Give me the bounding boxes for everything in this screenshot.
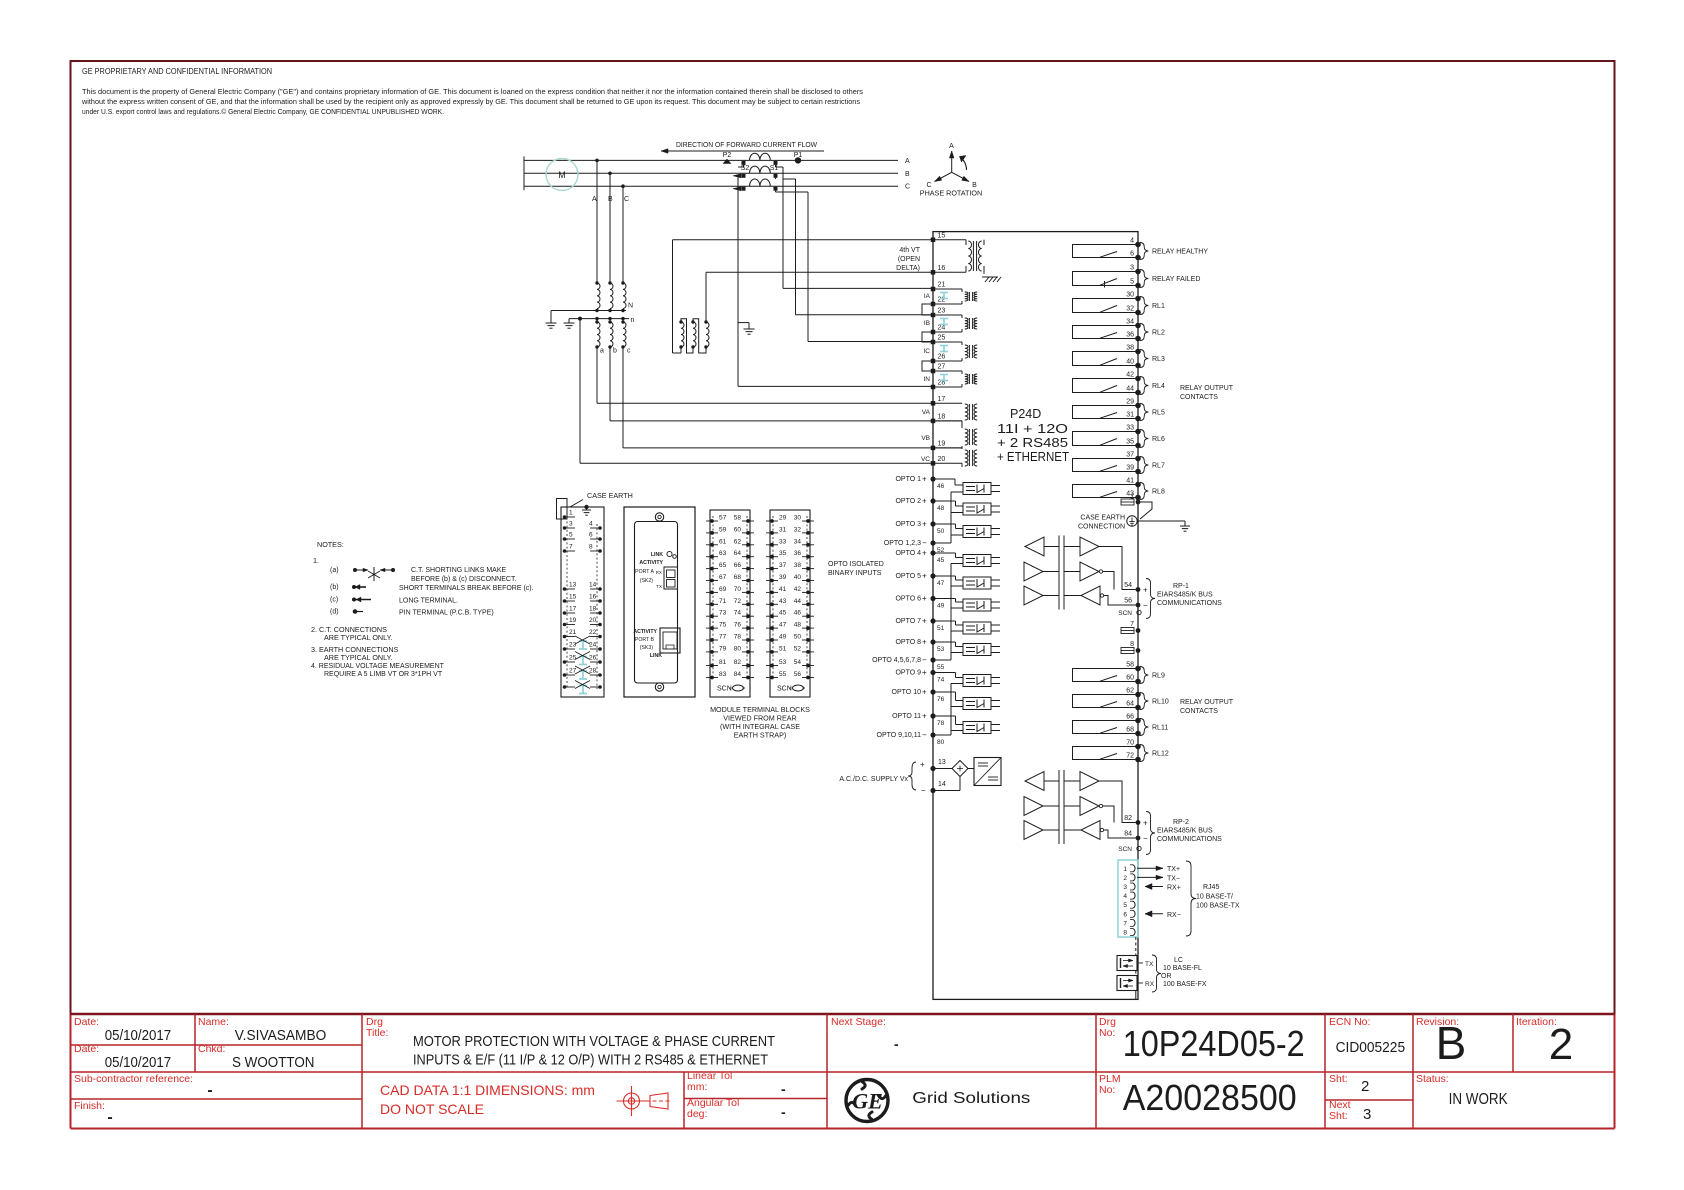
svg-text:Grid Solutions: Grid Solutions	[912, 1090, 1030, 1107]
svg-text:22: 22	[589, 629, 597, 636]
svg-text:n: n	[631, 317, 635, 324]
svg-text:3: 3	[1363, 1106, 1371, 1123]
svg-text:8: 8	[589, 544, 593, 551]
svg-text:15: 15	[569, 594, 577, 601]
svg-text:OPTO 2: OPTO 2	[895, 498, 921, 505]
svg-text:B: B	[905, 171, 910, 178]
svg-text:Sht:: Sht:	[1329, 1110, 1348, 1122]
svg-text:PORT A: PORT A	[635, 569, 654, 575]
svg-text:Date:: Date:	[74, 1016, 99, 1028]
svg-text:18: 18	[589, 606, 597, 613]
svg-text:+: +	[922, 520, 927, 529]
svg-text:BINARY INPUTS: BINARY INPUTS	[828, 570, 882, 577]
svg-text:75: 75	[719, 622, 727, 629]
svg-text:39: 39	[779, 574, 787, 581]
svg-text:NOTES:: NOTES:	[317, 540, 344, 549]
svg-text:78: 78	[937, 720, 945, 727]
svg-text:18: 18	[938, 413, 946, 420]
svg-text:32: 32	[1126, 306, 1134, 313]
svg-text:60: 60	[734, 526, 742, 533]
svg-text:6: 6	[1123, 911, 1127, 918]
svg-text:62: 62	[734, 538, 742, 545]
svg-text:COMMUNICATIONS: COMMUNICATIONS	[1157, 836, 1222, 843]
svg-text:RP-2: RP-2	[1173, 819, 1189, 826]
svg-text:84: 84	[734, 671, 742, 678]
svg-text:10P24D05-2: 10P24D05-2	[1123, 1023, 1305, 1064]
svg-text:+: +	[922, 712, 927, 721]
svg-text:Date:: Date:	[74, 1043, 99, 1055]
svg-text:40: 40	[1126, 359, 1134, 366]
svg-text:1.: 1.	[313, 556, 319, 565]
svg-text:82: 82	[734, 659, 742, 666]
svg-text:N: N	[628, 303, 633, 310]
svg-text:51: 51	[937, 625, 945, 632]
svg-text:50: 50	[937, 528, 945, 535]
svg-text:MOTOR PROTECTION WITH VOLTAGE: MOTOR PROTECTION WITH VOLTAGE & PHASE CU…	[413, 1034, 775, 1050]
svg-text:VB: VB	[921, 435, 930, 442]
svg-text:55: 55	[779, 671, 787, 678]
svg-text:48: 48	[794, 622, 802, 629]
svg-text:-: -	[207, 1082, 212, 1099]
svg-text:+ 2 RS485: + 2 RS485	[997, 436, 1068, 450]
svg-text:49: 49	[937, 603, 945, 610]
svg-text:20: 20	[589, 617, 597, 624]
svg-text:RL7: RL7	[1152, 463, 1165, 470]
svg-text:EIARS485/K BUS: EIARS485/K BUS	[1157, 592, 1213, 599]
svg-text:(d): (d)	[330, 609, 339, 616]
svg-text:RX: RX	[656, 570, 662, 575]
svg-text:1: 1	[1130, 494, 1134, 501]
svg-text:45: 45	[779, 610, 787, 617]
svg-text:80: 80	[937, 739, 945, 746]
svg-text:80: 80	[734, 645, 742, 652]
svg-text:Finish:: Finish:	[74, 1100, 105, 1112]
svg-text:77: 77	[719, 634, 727, 641]
svg-text:84: 84	[1124, 831, 1132, 838]
svg-text:ECN No:: ECN No:	[1329, 1016, 1370, 1028]
svg-text:74: 74	[734, 610, 742, 617]
svg-text:(a): (a)	[330, 567, 339, 574]
svg-text:3: 3	[1123, 884, 1127, 891]
svg-text:REQUIRE A 5 LIMB VT OR 3: REQUIRE A 5 LIMB VT OR 3*1PH VT	[324, 671, 443, 678]
svg-text:24: 24	[589, 642, 597, 649]
svg-text:PHASE ROTATION: PHASE ROTATION	[920, 189, 982, 198]
svg-text:TX: TX	[1145, 961, 1154, 968]
svg-text:36: 36	[794, 550, 802, 557]
svg-text:IC: IC	[924, 348, 931, 355]
svg-text:−: −	[1143, 601, 1148, 610]
svg-text:Chkd:: Chkd:	[198, 1043, 225, 1055]
svg-text:54: 54	[1124, 582, 1132, 589]
svg-text:RL11: RL11	[1152, 725, 1168, 732]
svg-text:38: 38	[1126, 345, 1134, 352]
svg-text:VA: VA	[922, 409, 931, 416]
svg-text:13: 13	[569, 582, 577, 589]
svg-text:27: 27	[938, 364, 946, 371]
svg-text:VC: VC	[921, 456, 930, 463]
svg-text:A: A	[949, 143, 954, 150]
svg-text:No:: No:	[1099, 1027, 1115, 1039]
svg-text:56: 56	[794, 671, 802, 678]
svg-text:GE: GE	[852, 1089, 883, 1114]
svg-text:5: 5	[569, 532, 573, 539]
svg-text:31: 31	[1126, 412, 1134, 419]
svg-text:Status:: Status:	[1416, 1073, 1449, 1085]
svg-text:A: A	[905, 158, 910, 165]
svg-text:CONTACTS: CONTACTS	[1180, 394, 1218, 401]
svg-text:LC: LC	[1174, 957, 1183, 964]
svg-text:+: +	[922, 475, 927, 484]
svg-text:OPTO 3: OPTO 3	[895, 521, 921, 528]
svg-text:6: 6	[589, 532, 593, 539]
svg-text:71: 71	[719, 598, 727, 605]
svg-text:43: 43	[779, 598, 787, 605]
svg-text:OPTO 7: OPTO 7	[895, 618, 921, 625]
svg-text:Name:: Name:	[198, 1016, 229, 1028]
svg-text:42: 42	[794, 586, 802, 593]
svg-text:RP-1: RP-1	[1173, 583, 1189, 590]
svg-text:BEFORE (b) & (c) DISCONNECT.: BEFORE (b) & (c) DISCONNECT.	[411, 576, 516, 583]
svg-text:44: 44	[1126, 386, 1134, 393]
svg-text:5: 5	[1130, 279, 1134, 286]
svg-text:Sub-contractor reference:: Sub-contractor reference:	[74, 1073, 193, 1085]
svg-text:37: 37	[779, 562, 787, 569]
svg-text:under U.S. export control laws: under U.S. export control laws and regul…	[82, 107, 444, 116]
svg-text:RX: RX	[1145, 981, 1155, 988]
svg-text:20: 20	[938, 456, 946, 463]
svg-text:+: +	[922, 497, 927, 506]
svg-text:64: 64	[734, 550, 742, 557]
svg-text:4. RESIDUAL VOLTAGE MEASURE: 4. RESIDUAL VOLTAGE MEASUREMENT	[311, 663, 445, 670]
svg-text:8: 8	[1123, 930, 1127, 937]
svg-text:36: 36	[1126, 332, 1134, 339]
svg-text:42: 42	[1126, 372, 1134, 379]
svg-text:76: 76	[937, 696, 945, 703]
svg-text:81: 81	[719, 659, 727, 666]
svg-text:OPTO 10: OPTO 10	[892, 689, 922, 696]
svg-text:54: 54	[794, 659, 802, 666]
svg-text:S2: S2	[741, 165, 750, 172]
svg-text:58: 58	[734, 515, 742, 522]
svg-text:ACTIVITY: ACTIVITY	[633, 629, 657, 635]
svg-text:IA: IA	[924, 293, 931, 300]
svg-text:OPTO 8: OPTO 8	[895, 639, 921, 646]
svg-text:PIN TERMINAL (P.C.B. TYPE): PIN TERMINAL (P.C.B. TYPE)	[399, 610, 494, 617]
svg-text:SCN: SCN	[1118, 846, 1132, 853]
svg-text:46: 46	[937, 483, 945, 490]
svg-text:32: 32	[794, 526, 802, 533]
svg-text:CAD DATA 1:1 DIMENSIONS: mm: CAD DATA 1:1 DIMENSIONS: mm	[380, 1082, 595, 1098]
svg-text:+ ETHERNET: + ETHERNET	[997, 450, 1069, 464]
svg-text:PORT B: PORT B	[635, 637, 655, 643]
svg-text:79: 79	[719, 645, 727, 652]
svg-text:35: 35	[779, 550, 787, 557]
svg-text:(SK3): (SK3)	[640, 645, 654, 651]
svg-text:+: +	[922, 594, 927, 603]
svg-text:CASE EARTH: CASE EARTH	[1080, 515, 1125, 522]
svg-text:30: 30	[1126, 292, 1134, 299]
svg-text:1: 1	[1123, 866, 1127, 873]
svg-text:66: 66	[1126, 714, 1134, 721]
svg-text:CID005225: CID005225	[1336, 1039, 1406, 1056]
svg-text:TX−: TX−	[1167, 875, 1180, 882]
svg-text:CASE EARTH: CASE EARTH	[587, 491, 633, 500]
svg-text:RL5: RL5	[1152, 410, 1165, 417]
svg-text:10 BASE-FL: 10 BASE-FL	[1163, 965, 1202, 972]
svg-text:59: 59	[719, 526, 727, 533]
svg-text:78: 78	[734, 634, 742, 641]
svg-text:RL1: RL1	[1152, 303, 1165, 310]
svg-text:2: 2	[1123, 875, 1127, 882]
svg-text:1: 1	[569, 510, 573, 517]
svg-text:B: B	[1436, 1017, 1467, 1069]
svg-text:26: 26	[938, 354, 946, 361]
svg-text:+: +	[922, 572, 927, 581]
svg-text:RELAY HEALTHY: RELAY HEALTHY	[1152, 249, 1208, 256]
svg-text:ARE TYPICAL ONLY.: ARE TYPICAL ONLY.	[324, 653, 392, 662]
svg-text:33: 33	[779, 538, 787, 545]
svg-text:3: 3	[569, 521, 573, 528]
svg-text:OPTO 6: OPTO 6	[895, 596, 921, 603]
svg-text:68: 68	[734, 574, 742, 581]
svg-text:DELTA): DELTA)	[896, 265, 920, 272]
svg-text:OR: OR	[1161, 973, 1172, 980]
svg-text:deg:: deg:	[687, 1108, 707, 1120]
svg-text:55: 55	[937, 664, 945, 671]
svg-text:OPTO 4,5,6,7,8: OPTO 4,5,6,7,8	[872, 657, 921, 664]
svg-text:This document is the property: This document is the property of General…	[82, 87, 863, 96]
svg-text:RX+: RX+	[1167, 885, 1181, 892]
svg-text:47: 47	[937, 580, 945, 587]
svg-text:13: 13	[938, 759, 946, 766]
svg-text:69: 69	[719, 586, 727, 593]
svg-text:26: 26	[589, 655, 597, 662]
svg-text:44: 44	[794, 598, 802, 605]
svg-text:05/10/2017: 05/10/2017	[105, 1028, 172, 1044]
svg-text:LINK: LINK	[651, 552, 663, 558]
svg-text:+: +	[922, 668, 927, 677]
svg-text:72: 72	[734, 598, 742, 605]
svg-text:(SK2): (SK2)	[640, 578, 654, 584]
svg-text:2: 2	[1361, 1078, 1369, 1095]
svg-text:31: 31	[779, 526, 787, 533]
svg-text:56: 56	[1124, 598, 1132, 605]
svg-text:25: 25	[938, 335, 946, 342]
svg-text:+: +	[922, 688, 927, 697]
svg-text:EARTH STRAP): EARTH STRAP)	[734, 731, 787, 740]
svg-text:P24D: P24D	[1010, 407, 1041, 421]
svg-text:S1: S1	[770, 165, 779, 172]
svg-text:25: 25	[569, 655, 577, 662]
svg-text:41: 41	[779, 586, 787, 593]
svg-text:DO NOT SCALE: DO NOT SCALE	[380, 1101, 484, 1117]
svg-text:70: 70	[734, 586, 742, 593]
svg-text:37: 37	[1126, 452, 1134, 459]
svg-text:16: 16	[938, 265, 946, 272]
svg-text:LONG TERMINAL.: LONG TERMINAL.	[399, 598, 458, 605]
svg-text:73: 73	[719, 610, 727, 617]
svg-text:(OPEN: (OPEN	[898, 256, 920, 263]
svg-text:72: 72	[1126, 753, 1134, 760]
svg-text:60: 60	[1126, 675, 1134, 682]
svg-text:35: 35	[1126, 439, 1134, 446]
svg-text:−: −	[922, 731, 927, 740]
svg-text:05/10/2017: 05/10/2017	[105, 1055, 172, 1071]
svg-text:M: M	[558, 170, 566, 180]
svg-text:-: -	[781, 1104, 786, 1120]
svg-text:74: 74	[937, 677, 945, 684]
svg-text:A: A	[592, 196, 597, 203]
svg-text:CONNECTION: CONNECTION	[1078, 524, 1125, 531]
svg-text:17: 17	[569, 606, 577, 613]
svg-text:70: 70	[1126, 740, 1134, 747]
svg-text:a: a	[600, 348, 604, 355]
svg-text:OPTO 9,10,11: OPTO 9,10,11	[877, 732, 922, 739]
svg-text:100 BASE-FX: 100 BASE-FX	[1163, 981, 1207, 988]
svg-text:14: 14	[938, 781, 946, 788]
svg-text:29: 29	[779, 515, 787, 522]
svg-text:29: 29	[1126, 399, 1134, 406]
svg-text:A20028500: A20028500	[1123, 1077, 1297, 1118]
svg-text:Title:: Title:	[366, 1027, 388, 1039]
svg-text:45: 45	[937, 557, 945, 564]
svg-text:EIARS485/K BUS: EIARS485/K BUS	[1157, 828, 1213, 835]
svg-text:23: 23	[569, 642, 577, 649]
svg-text:39: 39	[1126, 465, 1134, 472]
svg-text:Sht:: Sht:	[1329, 1073, 1348, 1085]
svg-text:RL3: RL3	[1152, 356, 1165, 363]
svg-text:RX−: RX−	[1167, 912, 1181, 919]
svg-text:RELAY OUTPUT: RELAY OUTPUT	[1180, 385, 1234, 392]
svg-text:V.SIVASAMBO: V.SIVASAMBO	[235, 1028, 326, 1044]
svg-text:53: 53	[937, 646, 945, 653]
svg-text:IN WORK: IN WORK	[1449, 1091, 1508, 1108]
svg-text:64: 64	[1126, 701, 1134, 708]
svg-text:SCN: SCN	[1118, 610, 1132, 617]
svg-text:No:: No:	[1099, 1084, 1115, 1096]
svg-text:COMMUNICATIONS: COMMUNICATIONS	[1157, 600, 1222, 607]
svg-text:TX: TX	[656, 584, 662, 589]
svg-text:(c): (c)	[330, 597, 338, 604]
svg-text:B: B	[608, 196, 613, 203]
svg-text:-: -	[107, 1109, 112, 1126]
svg-text:OPTO 5: OPTO 5	[895, 573, 921, 580]
svg-text:OPTO 9: OPTO 9	[895, 670, 921, 677]
svg-text:21: 21	[569, 629, 577, 636]
svg-text:ARE TYPICAL ONLY.: ARE TYPICAL ONLY.	[324, 633, 392, 642]
svg-text:S WOOTTON: S WOOTTON	[232, 1055, 315, 1071]
svg-text:+: +	[922, 549, 927, 558]
svg-text:66: 66	[734, 562, 742, 569]
svg-text:RL12: RL12	[1152, 751, 1169, 758]
svg-text:OPTO 4: OPTO 4	[895, 550, 921, 557]
svg-text:38: 38	[794, 562, 802, 569]
svg-text:21: 21	[938, 282, 946, 289]
svg-text:61: 61	[719, 538, 727, 545]
svg-text:17: 17	[938, 396, 946, 403]
svg-text:33: 33	[1126, 425, 1134, 432]
svg-text:+: +	[922, 617, 927, 626]
svg-text:62: 62	[1126, 688, 1134, 695]
svg-text:IN: IN	[924, 376, 931, 383]
svg-text:RL4: RL4	[1152, 383, 1165, 390]
svg-text:4: 4	[1130, 238, 1134, 245]
svg-text:+: +	[1143, 586, 1148, 595]
svg-text:23: 23	[938, 308, 946, 315]
svg-text:GE PROPRIETARY AND CONFIDENTIA: GE PROPRIETARY AND CONFIDENTIAL INFORMAT…	[82, 67, 272, 76]
svg-text:57: 57	[719, 515, 727, 522]
svg-text:OPTO 1,2,3: OPTO 1,2,3	[884, 540, 921, 547]
svg-text:19: 19	[569, 617, 577, 624]
svg-text:50: 50	[794, 634, 802, 641]
svg-text:4: 4	[1123, 893, 1127, 900]
svg-text:OPTO ISOLATED: OPTO ISOLATED	[828, 561, 884, 568]
svg-text:41: 41	[1126, 478, 1134, 485]
svg-text:76: 76	[734, 622, 742, 629]
svg-text:LINK: LINK	[650, 653, 662, 659]
svg-text:RL10: RL10	[1152, 699, 1169, 706]
svg-text:14: 14	[589, 582, 597, 589]
svg-text:Next Stage:: Next Stage:	[831, 1016, 886, 1028]
svg-text:63: 63	[719, 550, 727, 557]
svg-text:82: 82	[1124, 815, 1132, 822]
svg-text:65: 65	[719, 562, 727, 569]
svg-text:47: 47	[779, 622, 787, 629]
svg-text:−: −	[922, 656, 927, 665]
svg-text:A.C./D.C. SUPPLY Vx: A.C./D.C. SUPPLY Vx	[839, 776, 908, 783]
svg-text:+: +	[1143, 819, 1148, 828]
svg-text:RL6: RL6	[1152, 436, 1165, 443]
svg-text:49: 49	[779, 634, 787, 641]
svg-text:without the express written co: without the express written consent of G…	[81, 97, 860, 106]
svg-text:2: 2	[1549, 1020, 1573, 1069]
svg-text:+: +	[920, 760, 925, 769]
svg-text:b: b	[613, 348, 617, 355]
svg-text:P2: P2	[723, 152, 732, 159]
svg-text:7: 7	[569, 544, 573, 551]
svg-text:3: 3	[1130, 265, 1134, 272]
svg-text:19: 19	[938, 440, 946, 447]
svg-text:10 BASE-T/: 10 BASE-T/	[1196, 894, 1233, 901]
svg-text:52: 52	[794, 645, 802, 652]
svg-text:24: 24	[938, 325, 946, 332]
svg-text:100 BASE-TX: 100 BASE-TX	[1196, 903, 1240, 910]
svg-text:RELAY OUTPUT: RELAY OUTPUT	[1180, 699, 1234, 706]
svg-text:INPUTS & E/F (11 I/P & 12 O/P): INPUTS & E/F (11 I/P & 12 O/P) WITH 2 RS…	[413, 1053, 768, 1069]
svg-text:15: 15	[938, 232, 946, 239]
svg-text:8: 8	[1130, 641, 1134, 648]
svg-text:OPTO 11: OPTO 11	[892, 713, 921, 720]
svg-text:SCN: SCN	[777, 686, 792, 693]
svg-text:−: −	[921, 786, 926, 795]
svg-text:7: 7	[1130, 621, 1134, 628]
svg-text:16: 16	[589, 594, 597, 601]
svg-text:RL2: RL2	[1152, 330, 1165, 337]
svg-text:-: -	[781, 1081, 786, 1097]
svg-text:IB: IB	[924, 320, 930, 327]
svg-text:4th VT: 4th VT	[899, 247, 920, 254]
svg-text:−: −	[1143, 834, 1148, 843]
svg-text:53: 53	[779, 659, 787, 666]
svg-text:51: 51	[779, 645, 787, 652]
svg-text:CONTACTS: CONTACTS	[1180, 708, 1218, 715]
svg-text:RJ45: RJ45	[1203, 884, 1219, 891]
svg-text:67: 67	[719, 574, 727, 581]
svg-text:48: 48	[937, 505, 945, 512]
svg-text:46: 46	[794, 610, 802, 617]
svg-text:28: 28	[589, 668, 597, 675]
svg-text:C: C	[624, 196, 629, 203]
